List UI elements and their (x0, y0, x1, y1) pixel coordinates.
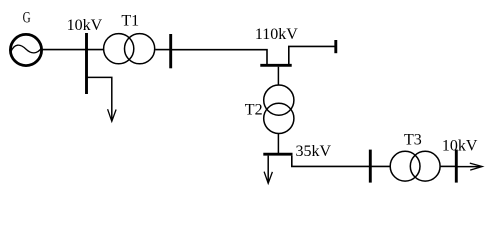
wire bus B1 to load branch (87, 77, 112, 120)
transformer T1 (104, 34, 155, 64)
transformer T2 (264, 85, 294, 134)
wire T2 to 35kV bus (277, 134, 279, 153)
wire bus B2 to 110kV bus (171, 50, 267, 65)
svg-text:110kV: 110kV (255, 26, 298, 43)
svg-text:T3: T3 (404, 132, 422, 149)
bus B4 35kV (263, 153, 292, 156)
svg-text:10kV: 10kV (442, 137, 478, 154)
svg-text:T2: T2 (245, 101, 263, 118)
svg-text:T1: T1 (121, 13, 139, 30)
wire T1 to bus B2 (155, 49, 171, 51)
transformer T3 (390, 151, 440, 181)
bus B2 (169, 34, 172, 68)
svg-text:35kV: 35kV (296, 143, 332, 160)
bus B5 (369, 150, 372, 183)
wire bus B6 to output arrow (456, 166, 480, 168)
line terminal tick (334, 40, 337, 53)
wire generator to 10kV bus (42, 49, 86, 51)
wire 35kV bus to bus B5 (292, 156, 371, 167)
wire T3 to bus B6 (441, 165, 457, 167)
bus B1 10kV (85, 33, 88, 94)
wire bus B1 to T1 (87, 49, 104, 51)
load arrow at 35kV bus (264, 172, 272, 184)
bus B3 110kV (260, 64, 291, 67)
bus B6 10kV (455, 150, 458, 183)
svg-text:G: G (23, 10, 31, 27)
wire 35kV bus to load arrow (267, 156, 269, 183)
wire 110kV bus to T2 (277, 67, 279, 85)
generator G (10, 34, 41, 65)
wire bus B5 to T3 (370, 165, 390, 167)
wire 110kV bus to line terminal (289, 46, 335, 64)
svg-text:10kV: 10kV (67, 17, 103, 34)
output arrow 10kV feeder (470, 163, 482, 170)
load arrow at 10kV bus (108, 109, 117, 121)
